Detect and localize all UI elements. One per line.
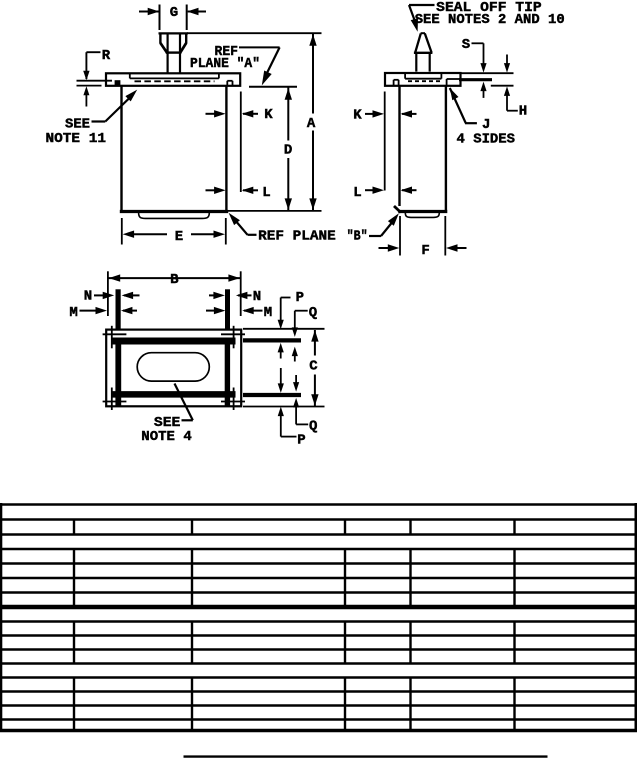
dimension L arrows side view	[365, 189, 377, 191]
pinched seal tip side view	[421, 32, 425, 34]
dimension S arrows	[480, 63, 486, 73]
corner tick marks bottom-right	[233, 388, 235, 411]
can bottom side view	[398, 210, 447, 213]
seal-off funnel top line	[159, 32, 189, 34]
lid outline side view	[385, 73, 461, 86]
can bottom left chamfer	[394, 206, 401, 213]
svg-text:PLANE "A": PLANE "A"	[190, 56, 260, 72]
can body right wall	[225, 86, 227, 210]
seal tube walls	[167, 34, 169, 73]
can bottom dish side view	[405, 213, 439, 218]
svg-text:Q: Q	[309, 419, 317, 435]
dimension F arrows	[379, 247, 393, 249]
svg-text:E: E	[175, 229, 183, 245]
svg-text:N: N	[84, 289, 92, 305]
dimension A line and arrows	[312, 33, 314, 113]
dimension K arrows front view	[206, 113, 219, 115]
seal-off funnel crossbar	[166, 51, 182, 53]
right wall band extension upward	[225, 289, 230, 329]
lid top extension line for S and H	[462, 72, 514, 74]
dimension N right arrows	[209, 294, 217, 296]
see note 11 leader	[92, 120, 106, 122]
dimension B line and arrows	[109, 277, 241, 279]
dimension G arrows	[139, 11, 159, 13]
lid dashed seating line	[135, 80, 215, 82]
dimension H bracket and label	[507, 110, 518, 112]
flange lip protruding (J detail)	[459, 78, 492, 81]
can body right wall side view	[445, 86, 447, 210]
extension line of lid edge front view	[240, 92, 242, 193]
dimension B extension lines	[107, 271, 109, 316]
svg-text:K: K	[264, 107, 273, 123]
data table column dividers	[73, 520, 75, 535]
dimension Q top arrows	[292, 327, 298, 337]
corner tick marks bottom-left	[111, 388, 113, 411]
bottom view wall band right	[225, 338, 230, 406]
seal opening oval (note 4)	[137, 353, 209, 381]
lid dashed line side view	[408, 80, 440, 82]
svg-text:G: G	[170, 5, 178, 21]
dimension Q bottom bracket and label	[296, 423, 308, 425]
svg-text:B: B	[170, 272, 179, 288]
lid right notch	[226, 81, 228, 86]
svg-text:P: P	[296, 290, 304, 306]
right extension line band top (thick)	[243, 338, 301, 342]
svg-text:R: R	[102, 48, 111, 64]
right extension line band bottom (thick)	[243, 393, 301, 397]
svg-text:REF PLANE: REF PLANE	[258, 229, 336, 245]
J corner step cut	[446, 79, 448, 86]
svg-text:P: P	[297, 433, 305, 449]
right extension line outer top	[243, 328, 325, 330]
lid left notch side view	[393, 80, 395, 86]
lid inner step side view	[404, 73, 406, 79]
svg-text:A: A	[307, 116, 316, 132]
can bottom extension line to dimensions	[227, 210, 322, 212]
J leader line	[450, 88, 459, 100]
lid bottom extension line for H	[491, 85, 514, 87]
dimension N left arrows	[94, 294, 106, 296]
svg-text:SEE NOTES 2 AND 10: SEE NOTES 2 AND 10	[415, 12, 565, 28]
dimension P top arrows	[278, 320, 284, 330]
corner tick marks top-left	[111, 326, 113, 349]
dimension F extension lines	[399, 216, 401, 256]
lid outline front view	[106, 73, 240, 86]
dimension P bottom arrows	[280, 368, 282, 385]
bottom view wall band top	[112, 338, 236, 345]
svg-text:D: D	[284, 142, 292, 158]
bottom view wall band left	[115, 338, 121, 406]
can bottom dish	[139, 213, 210, 219]
svg-text:L: L	[353, 185, 361, 201]
dimension C line and arrows	[314, 330, 316, 356]
svg-text:4 SIDES: 4 SIDES	[457, 131, 516, 147]
svg-text:NOTE 11: NOTE 11	[46, 131, 107, 147]
svg-text:Q: Q	[309, 305, 317, 321]
dimension R bracket and label	[85, 52, 87, 79]
dimension Q bottom arrows	[295, 375, 297, 384]
seal off tip leader	[409, 4, 435, 6]
svg-text:H: H	[519, 104, 527, 120]
svg-text:L: L	[262, 185, 270, 201]
see note 4 leader	[182, 419, 193, 421]
svg-text:"B": "B"	[347, 229, 368, 245]
bottom view wall band bottom	[112, 391, 236, 398]
dimension R lower extension line	[77, 85, 102, 87]
REF PLANE B left leader	[248, 234, 257, 236]
lid left notch (filled)	[115, 80, 121, 85]
right extension line outer bottom	[243, 406, 325, 408]
dimension R upper extension line	[77, 80, 113, 82]
data table outer vertical borders	[0, 503, 2, 732]
dimension M left arrows	[80, 310, 100, 312]
left wall band extension upward	[115, 289, 120, 329]
svg-text:M: M	[69, 305, 77, 321]
svg-text:M: M	[264, 305, 272, 321]
dimension K arrows side view	[365, 113, 377, 115]
REF PLANE B right leader	[369, 235, 381, 237]
REF PLANE A leader	[265, 47, 280, 77]
svg-text:F: F	[421, 243, 429, 259]
svg-text:N: N	[253, 289, 261, 305]
svg-text:K: K	[353, 107, 362, 123]
seal tube side view	[415, 53, 417, 72]
seal-off funnel outer sides	[159, 34, 161, 44]
dimension M right arrows	[206, 310, 218, 312]
dimension D line and arrows	[287, 87, 289, 140]
can body left wall	[120, 86, 122, 210]
data table horizontal rules	[0, 503, 637, 506]
REF label tie line	[239, 46, 280, 48]
dimension P bottom bracket and label	[281, 436, 297, 438]
dimension E extension lines	[121, 218, 123, 245]
dimension P top bracket and label	[280, 298, 282, 322]
can bottom (ref plane B)	[120, 210, 228, 213]
svg-text:S: S	[462, 37, 470, 53]
dimension L arrows front view	[206, 189, 219, 191]
bottom view outer outline	[106, 330, 241, 407]
dimension Q top bracket and label	[294, 311, 296, 328]
svg-text:C: C	[309, 358, 318, 374]
corner tick marks top-right	[233, 326, 235, 349]
dimension E line and arrows	[132, 233, 167, 235]
can body left wall side view	[398, 86, 400, 206]
dimension G extension lines	[159, 5, 161, 31]
REF plane A datum line	[249, 86, 297, 88]
svg-text:NOTE 4: NOTE 4	[141, 429, 192, 445]
signature underline	[184, 755, 548, 757]
extension line of lid edge side view	[384, 92, 386, 191]
dimension R arrows	[83, 71, 89, 81]
lid inner step line	[129, 73, 131, 78]
top reference line to dimension A	[187, 32, 322, 34]
dimension H arrows	[506, 55, 508, 65]
